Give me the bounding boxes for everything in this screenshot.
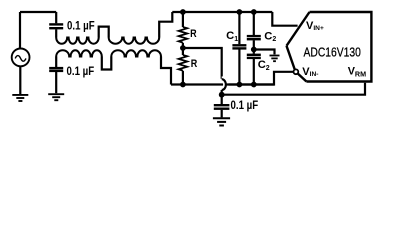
transformer T1 primary winding (top row group 1)	[56, 38, 99, 44]
sine wave inside source	[15, 56, 26, 62]
wire top rail left segment	[20, 11, 56, 13]
svg-text:C2: C2	[264, 30, 276, 43]
wire source top to top rail	[19, 12, 21, 48]
svg-text:C1: C1	[226, 30, 238, 43]
wire staircase to bottom rail	[161, 57, 171, 85]
ground (source)	[12, 95, 28, 101]
node C2 top	[251, 9, 257, 15]
svg-text:VRM: VRM	[348, 66, 366, 79]
wire dip bridge between bottom windings	[102, 57, 112, 70]
capacitor 0.1 uF (bottom coupling)	[55, 57, 57, 68]
wire bottom rail	[171, 72, 293, 85]
node C1 top	[237, 9, 243, 15]
node C2 midpoint	[251, 47, 257, 53]
ADC U1 ADC16V130 outline	[287, 12, 372, 82]
junction node dots	[180, 9, 257, 98]
capacitor C2 (lower)	[253, 50, 255, 54]
node VRM cap	[219, 92, 225, 98]
node C2 bottom	[251, 82, 257, 88]
resistor R (lower)	[182, 48, 184, 55]
capacitor 0.1 uF (top coupling)	[55, 12, 57, 23]
ground (C2 midpoint)	[270, 56, 280, 62]
resistor R (upper)	[182, 12, 184, 27]
svg-text:0.1 µF: 0.1 µF	[67, 20, 95, 33]
wire hop over bottom rail	[222, 79, 226, 90]
svg-text:R: R	[191, 58, 198, 70]
wire source bottom to ground	[19, 66, 21, 94]
capacitor C1	[238, 12, 240, 44]
wire R midpoint to VRM node	[183, 48, 222, 79]
transformer T2 secondary winding (bottom row group 2)	[111, 50, 161, 56]
AC source V1	[12, 49, 30, 67]
wire top rail right segment	[172, 11, 272, 13]
node C1 bottom	[237, 82, 243, 88]
ground (bottom coupling cap)	[48, 94, 64, 100]
svg-text:0.1 µF: 0.1 µF	[231, 99, 259, 112]
wire step down to VIN+	[272, 12, 297, 26]
pin bubble VIN-	[294, 69, 299, 74]
svg-text:VIN+: VIN+	[306, 20, 324, 32]
svg-text:R: R	[190, 28, 197, 40]
transformer T1 secondary winding (bottom row group 1)	[56, 50, 102, 56]
svg-text:VIN-: VIN-	[302, 66, 318, 78]
ground (VRM cap)	[213, 118, 230, 125]
capacitor C2 (upper)	[253, 12, 255, 35]
node between R and R	[180, 45, 186, 51]
wire bridge between top windings	[99, 27, 109, 38]
transformer T2 primary winding (top row group 2)	[109, 38, 160, 44]
capacitor 0.1 uF (VRM decoupling)	[221, 95, 223, 105]
wire staircase winding to top rail	[159, 12, 172, 38]
wire C2 midpoint to ground	[254, 50, 275, 55]
svg-text:C2: C2	[258, 59, 270, 72]
svg-text:0.1 µF: 0.1 µF	[67, 65, 95, 78]
svg-text:ADC16V130: ADC16V130	[304, 45, 362, 59]
wire VRM line to ADC	[222, 83, 365, 95]
node R bottom on rail	[180, 82, 186, 88]
node R top on rail	[180, 9, 186, 15]
